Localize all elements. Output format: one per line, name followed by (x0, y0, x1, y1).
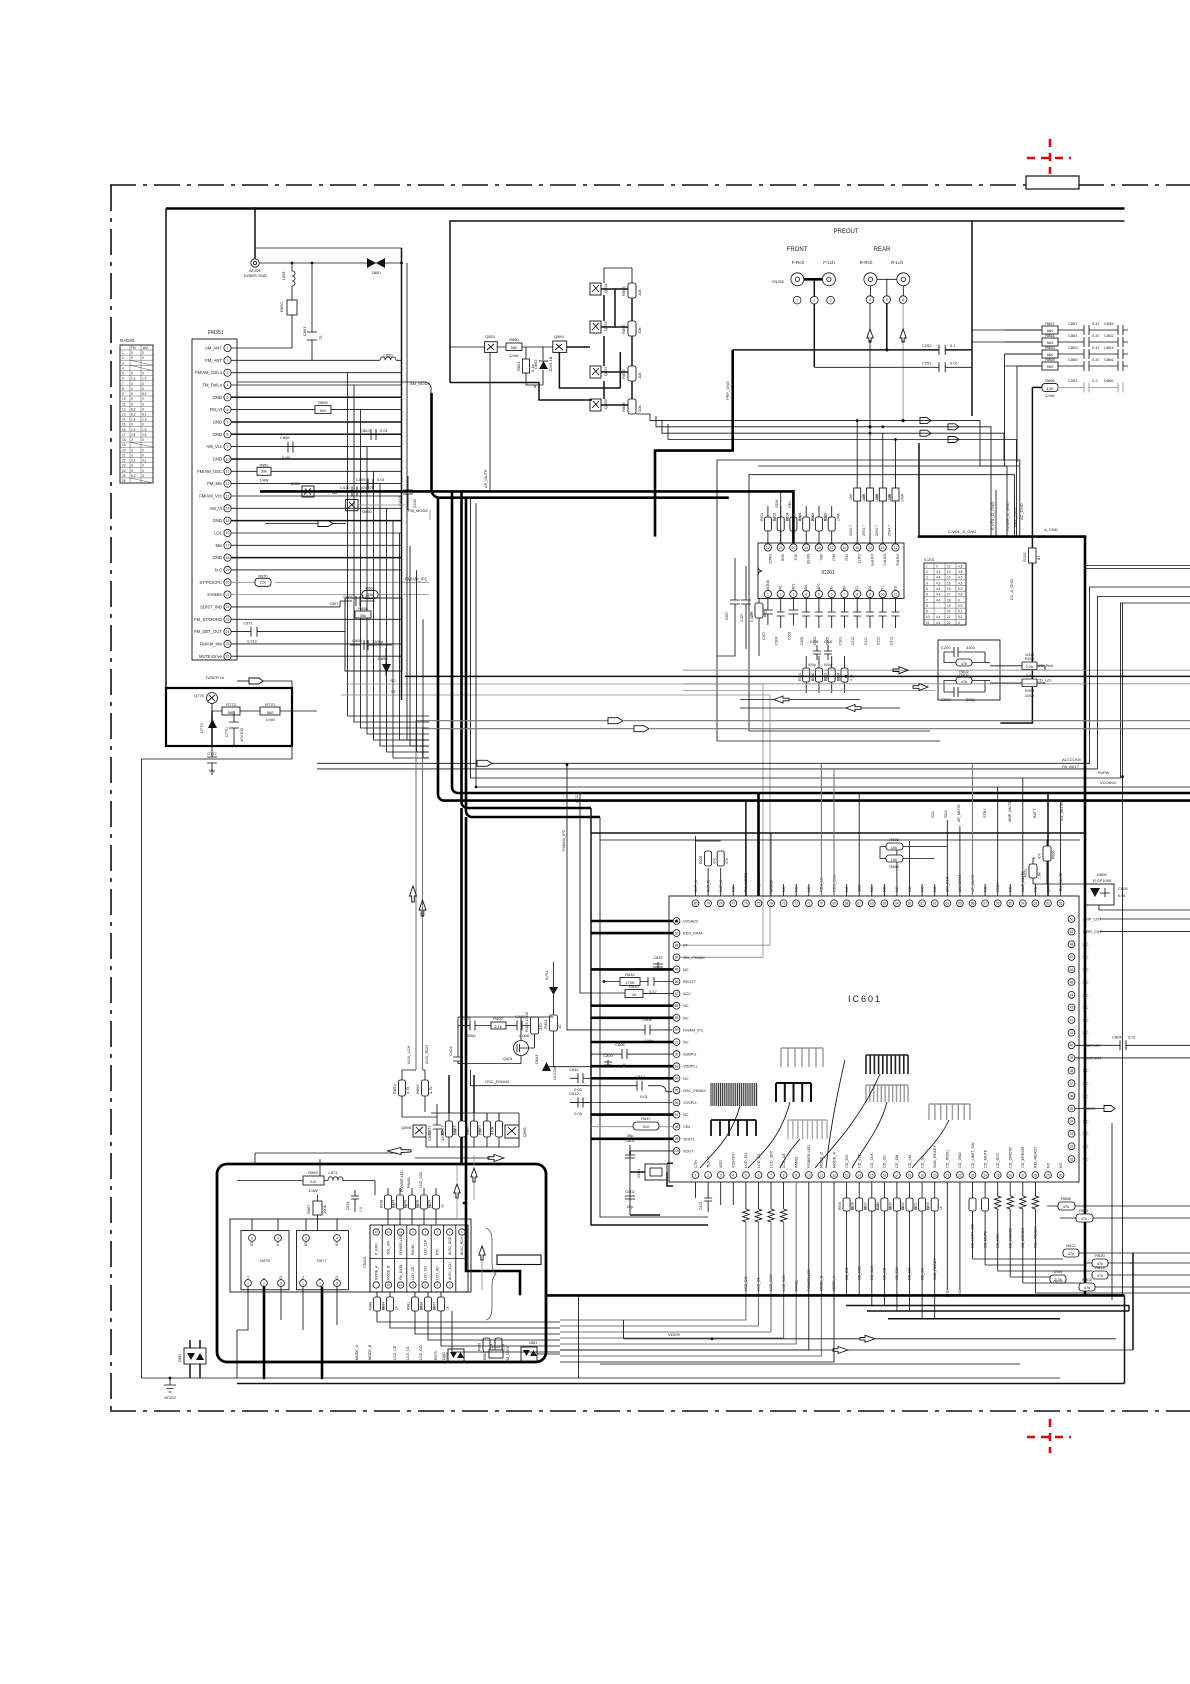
svg-text:1300p: 1300p (372, 639, 384, 644)
svg-text:23: 23 (226, 618, 230, 622)
wire thick bottom bus3 (867, 1310, 1129, 1312)
svg-text:L871: L871 (329, 1170, 339, 1175)
svg-text:7: 7 (926, 598, 928, 602)
svg-text:K1: K1 (301, 1276, 305, 1280)
svg-text:89: 89 (675, 1016, 679, 1020)
svg-text:14: 14 (226, 507, 230, 511)
pin IC601-86 REOST (673, 978, 697, 985)
resistor R818 (1050, 1269, 1066, 1284)
svg-text:1.3: 1.3 (142, 377, 147, 381)
resistor R836 CD (851, 1182, 868, 1295)
pin IC601-31 NC (1068, 1156, 1089, 1163)
svg-text:10V220: 10V220 (360, 485, 375, 490)
svg-text:NC: NC (683, 1041, 689, 1045)
svg-text:Q852: Q852 (362, 509, 373, 514)
svg-text:1/4W: 1/4W (491, 1344, 501, 1349)
svg-text:R870: R870 (258, 574, 267, 578)
svg-text:R837: R837 (863, 1202, 867, 1210)
pin IC601-25 CD_RST (994, 1152, 1001, 1178)
svg-text:2k: 2k (395, 1306, 399, 1310)
svg-text:4: 4 (869, 298, 871, 302)
wire thick bottom bus1 (546, 1294, 1125, 1297)
svg-text:D882: D882 (442, 1352, 446, 1360)
pin 4 FM_Do/Lo (202, 381, 231, 388)
svg-text:R847: R847 (641, 1116, 651, 1121)
svg-text:Q854: Q854 (554, 334, 565, 339)
pin 18 GND (213, 554, 231, 561)
svg-text:0.01: 0.01 (950, 361, 959, 366)
svg-text:1k: 1k (446, 1306, 450, 1310)
svg-text:SCL: SCL (793, 554, 797, 561)
resistor R902 bottom (944, 672, 990, 692)
svg-text:L850: L850 (384, 352, 394, 357)
resistor R689 (880, 847, 935, 870)
svg-text:2: 2 (263, 1281, 265, 1285)
wire pin3 (231, 372, 401, 374)
pin IC601-36 NC (1068, 1092, 1089, 1099)
svg-text:C859: C859 (1104, 321, 1114, 326)
svg-text:P5V: P5V (436, 1248, 440, 1255)
pin IC601-44 NC (1068, 991, 1089, 998)
svg-text:47k: 47k (725, 858, 729, 864)
svg-text:5.1k: 5.1k (494, 1024, 502, 1029)
svg-text:RDS_DATA: RDS_DATA (683, 932, 703, 936)
resistor zig LCD 2 (560, 1182, 762, 1326)
wire bottom rail 2 (237, 1383, 1125, 1385)
svg-text:390: 390 (261, 470, 267, 474)
svg-text:D860: D860 (1104, 378, 1114, 383)
resistor R852 on pin11 (231, 470, 401, 472)
svg-text:55: 55 (1008, 902, 1012, 906)
wire pin4 drop (867, 303, 873, 426)
svg-text:LCD_D1: LCD_D1 (757, 1277, 761, 1291)
wire branch 4 (367, 447, 429, 734)
resistor R204 (785, 506, 802, 544)
svg-text:ST-PG/CPC: ST-PG/CPC (199, 580, 222, 585)
wire rear drops (870, 286, 903, 296)
pin 20 ST-PG/CPC (199, 579, 231, 586)
svg-text:9: 9 (122, 392, 124, 396)
pin IC601-65 NC (881, 884, 888, 907)
svg-text:17: 17 (122, 433, 126, 437)
wire bus v461b display drop (460, 808, 463, 1164)
svg-text:X601: X601 (636, 1168, 641, 1178)
pin IC201-22 GND2 (764, 544, 772, 564)
wire display drops (264, 1287, 322, 1379)
capacitor C306 (800, 598, 810, 645)
svg-text:16: 16 (883, 1173, 887, 1177)
svg-text:68: 68 (845, 902, 849, 906)
resistor R770 (260, 702, 317, 722)
resistor R809 CD (926, 1182, 943, 1319)
svg-text:3: 3 (122, 361, 124, 365)
svg-text:K3: K3 (335, 1276, 339, 1280)
svg-text:FM/AM_Vcc: FM/AM_Vcc (199, 494, 222, 499)
resistor R841 (1060, 1208, 1190, 1222)
diode D880 (178, 1340, 206, 1378)
svg-text:NC: NC (1083, 1158, 1089, 1162)
net OSC_FM/AM (471, 1070, 673, 1092)
svg-text:C851: C851 (302, 326, 307, 336)
wire MODE_B (560, 1182, 824, 1356)
pin IC601-14 CD_LTD (856, 1153, 863, 1178)
resistor R861 (1005, 333, 1084, 346)
capacitor C311 (864, 598, 874, 645)
wire osc top (458, 1017, 553, 1026)
wire pin14 (231, 507, 401, 509)
svg-text:AMP_CNT: AMP_CNT (1083, 918, 1102, 922)
wire pin23 (231, 618, 401, 620)
resistor R804b (995, 1182, 1001, 1271)
svg-text:14: 14 (868, 546, 872, 550)
connector arrow up b (471, 1168, 477, 1182)
wire branch 1 (348, 373, 430, 716)
svg-text:330: 330 (538, 1023, 543, 1030)
svg-text:1/4W: 1/4W (1025, 693, 1035, 698)
svg-text:95: 95 (675, 1089, 679, 1093)
svg-text:15: 15 (226, 519, 230, 523)
pin 26 MUTE-Drive (199, 653, 231, 660)
resistor R858 (355, 606, 371, 618)
svg-text:10: 10 (122, 397, 126, 401)
wire pin1 (231, 347, 292, 349)
svg-text:R829: R829 (428, 1200, 432, 1208)
pin IC201-12 OUTR2 (892, 544, 900, 566)
svg-text:12: 12 (122, 407, 126, 411)
wire x578 drop (578, 1295, 580, 1378)
waveform blob 1 (781, 1048, 823, 1067)
svg-text:9: 9 (795, 1173, 797, 1177)
svg-text:0: 0 (131, 387, 133, 391)
svg-text:18: 18 (947, 598, 951, 602)
svg-text:R205: R205 (1022, 552, 1027, 562)
capacitor C886 (741, 566, 754, 625)
svg-text:MODE_B: MODE_B (387, 1265, 391, 1280)
wire RxPW (471, 498, 1190, 778)
connector arrow CD_Rch (893, 667, 908, 674)
resistor R820 (1085, 1253, 1190, 1267)
svg-text:CD_CE: CD_CE (883, 1155, 887, 1168)
block enclosure IC601 outer top (591, 832, 1085, 834)
svg-text:21: 21 (779, 546, 783, 550)
capacitor C806 (591, 1042, 673, 1067)
svg-text:D881: D881 (529, 1341, 537, 1345)
pin IC601-87 ACC (673, 990, 691, 997)
svg-text:18k: 18k (750, 611, 754, 617)
svg-text:90: 90 (675, 1028, 679, 1032)
table IC201 (924, 557, 966, 625)
svg-text:51: 51 (1059, 902, 1063, 906)
resistor R877 (433, 1292, 450, 1322)
table RADIO (120, 338, 153, 483)
svg-text:5.1: 5.1 (958, 610, 963, 614)
svg-text:FM: FM (131, 346, 136, 350)
svg-text:32: 32 (1070, 1145, 1074, 1149)
svg-text:C310: C310 (851, 637, 855, 645)
capacitor C253 (849, 525, 853, 536)
svg-text:25V4.7: 25V4.7 (862, 525, 866, 536)
svg-text:10: 10 (807, 1173, 811, 1177)
svg-text:15: 15 (122, 423, 126, 427)
pin IC601-71 NC (805, 884, 812, 907)
resistor R854 (392, 1070, 437, 1117)
pin IC601-62 NC (919, 884, 926, 907)
net ACC (574, 793, 625, 993)
svg-text:R878: R878 (380, 1200, 384, 1208)
svg-text:1.5: 1.5 (131, 428, 136, 432)
connector flag aux1 (608, 718, 623, 724)
svg-text:R828: R828 (416, 1200, 420, 1208)
svg-text:ACC: ACC (683, 992, 691, 996)
capacitor C865 (1068, 357, 1118, 371)
svg-text:LCD_CLK: LCD_CLK (423, 1239, 427, 1255)
svg-text:0: 0 (142, 372, 144, 376)
svg-text:Q851: Q851 (603, 282, 608, 293)
wire front jack tie (804, 278, 822, 281)
wire bank internals (567, 268, 632, 405)
capacitor C851 (302, 263, 323, 360)
svg-text:Q853: Q853 (485, 334, 496, 339)
svg-text:22: 22 (766, 546, 770, 550)
svg-text:C307: C307 (762, 632, 766, 640)
svg-text:R403 1/4W: R403 1/4W (524, 1012, 529, 1032)
svg-text:R876: R876 (404, 1200, 408, 1208)
ic IC201 body (758, 543, 904, 598)
wire tuner gnd drop (254, 209, 256, 259)
svg-text:43: 43 (1070, 1006, 1074, 1010)
svg-text:POWER-LED: POWER-LED (400, 1170, 404, 1192)
svg-text:67: 67 (857, 902, 861, 906)
svg-text:3: 3 (131, 453, 133, 457)
svg-text:8: 8 (783, 1173, 785, 1177)
pin IC601-57 NC (982, 884, 989, 907)
page border frame (110, 185, 1190, 1411)
wire pin16 (231, 532, 401, 534)
pin IC601-35 TBASS (1068, 1105, 1115, 1112)
pin IC601-76 FM_MODE (743, 801, 750, 907)
svg-text:2: 2 (813, 299, 815, 303)
svg-text:41: 41 (1070, 1031, 1074, 1035)
wire PANEL (560, 1182, 798, 1344)
svg-text:28: 28 (1034, 1173, 1038, 1177)
resistor R863 aux (452, 1113, 478, 1147)
svg-text:ACC: ACC (574, 794, 579, 803)
svg-text:R821: R821 (914, 1202, 918, 1210)
svg-text:CD_LTD: CD_LTD (857, 1266, 861, 1280)
resistor zig LCD 4 (560, 1182, 787, 1338)
svg-text:0: 0 (142, 438, 144, 442)
svg-text:T1: T1 (881, 586, 885, 590)
svg-text:13: 13 (122, 413, 126, 417)
resistor R864 (415, 1070, 433, 1112)
svg-text:F-Rch: F-Rch (792, 260, 805, 265)
svg-text:C770: C770 (224, 727, 229, 737)
svg-text:2: 2 (319, 1281, 321, 1285)
capacitor C863 (1068, 345, 1118, 359)
svg-text:560: 560 (1047, 364, 1054, 369)
pin IC201-21 SDA (777, 544, 785, 562)
svg-text:K1: K1 (246, 1276, 250, 1280)
capacitor C802 (625, 1189, 636, 1209)
svg-text:FM351: FM351 (208, 330, 224, 336)
pin IC601-22 CD_GND (957, 1152, 964, 1179)
svg-text:73: 73 (782, 902, 786, 906)
net AF_MUTE mid (483, 352, 490, 491)
resistor R861 aux (427, 1113, 453, 1147)
wire pin10 (231, 458, 401, 460)
svg-text:CD_EM: CD_EM (895, 1155, 899, 1168)
connector flag preout 3 (920, 430, 931, 436)
svg-text:FM_Vt: FM_Vt (210, 407, 223, 412)
svg-text:BATT: BATT (1033, 808, 1037, 818)
svg-text:R874: R874 (392, 1200, 396, 1208)
svg-text:FM_ANT: FM_ANT (205, 358, 222, 363)
resistor R209 (824, 506, 841, 544)
svg-text:12: 12 (832, 1173, 836, 1177)
svg-text:Q401: Q401 (503, 1056, 514, 1061)
svg-text:VD2: VD2 (845, 554, 849, 561)
svg-text:K4: K4 (335, 1242, 339, 1246)
svg-text:FM/AM_OSC: FM/AM_OSC (197, 469, 222, 474)
svg-text:LO1: LO1 (214, 531, 223, 536)
svg-text:11: 11 (894, 593, 898, 597)
svg-text:11: 11 (122, 402, 126, 406)
svg-text:C897: C897 (329, 602, 338, 606)
svg-text:97: 97 (675, 1113, 679, 1117)
svg-text:CD_LM: CD_LM (908, 1155, 912, 1168)
resistor R205 (1000, 387, 1041, 723)
wire row feeds (972, 330, 1042, 466)
wire pin6 drop (900, 303, 906, 420)
svg-text:0.8: 0.8 (958, 593, 963, 597)
svg-text:10k: 10k (637, 406, 642, 412)
svg-text:AM: AM (143, 346, 148, 350)
transistor Q855 (590, 320, 608, 333)
svg-text:A_GND: A_GND (1044, 527, 1058, 532)
svg-text:R863: R863 (1045, 345, 1055, 350)
diode D841 (534, 1054, 672, 1080)
svg-text:C252: C252 (922, 343, 932, 348)
svg-text:POWER-LED: POWER-LED (807, 1269, 811, 1291)
svg-text:7: 7 (844, 593, 846, 597)
svg-text:C865: C865 (352, 638, 362, 643)
resistor R847 (591, 1116, 673, 1130)
svg-text:0: 0 (936, 564, 938, 568)
capacitor C810 (635, 1074, 648, 1099)
svg-text:3: 3 (131, 464, 133, 468)
svg-text:MUTE-Drive: MUTE-Drive (199, 654, 223, 659)
resistor R884 (382, 1292, 399, 1322)
svg-text:5: 5 (745, 1173, 747, 1177)
svg-text:470k: 470k (490, 1126, 495, 1135)
svg-text:FM/AM_Do/Lo: FM/AM_Do/Lo (195, 370, 223, 375)
svg-text:GND: GND (213, 555, 222, 560)
svg-text:0: 0 (142, 382, 144, 386)
svg-text:75: 75 (318, 335, 323, 340)
svg-text:CD_DO: CD_DO (845, 1155, 849, 1168)
wire aux gray right of CN601 (457, 1155, 482, 1290)
svg-text:4.5: 4.5 (958, 581, 963, 585)
svg-text:REL-READY: REL-READY (1034, 1146, 1038, 1168)
svg-text:P_GND: P_GND (374, 1243, 378, 1255)
svg-text:R868: R868 (1061, 1196, 1071, 1201)
svg-text:C303: C303 (787, 632, 791, 640)
svg-text:VDDPLL: VDDPLL (683, 1065, 698, 1069)
capacitor C202 bottom (941, 687, 985, 702)
svg-text:NC: NC (1059, 1162, 1063, 1168)
svg-text:VSSPLL: VSSPLL (683, 1101, 697, 1105)
resistor 180 feed (888, 488, 905, 544)
svg-text:7: 7 (122, 382, 124, 386)
resistor R853 (621, 283, 642, 298)
svg-text:Q898: Q898 (401, 1125, 412, 1130)
pin IC201-2 FIL (777, 585, 784, 598)
svg-text:11: 11 (926, 621, 930, 625)
pin IC601-91 NC (591, 1039, 689, 1046)
svg-text:1/4W: 1/4W (901, 493, 905, 502)
resistor R202 (773, 506, 790, 544)
svg-text:5V91: 5V91 (544, 970, 549, 980)
wire pin12 (231, 483, 401, 485)
svg-text:79: 79 (706, 902, 710, 906)
svg-text:R852: R852 (259, 463, 268, 467)
svg-text:4.4: 4.4 (936, 587, 941, 591)
svg-text:75: 75 (757, 902, 761, 906)
pin 13 FM/AM_Vcc (199, 492, 231, 499)
capacitor C861 (1068, 333, 1118, 347)
svg-text:TUNER HI: TUNER HI (205, 675, 224, 680)
svg-text:22: 22 (226, 605, 230, 609)
resistor R874 (392, 1188, 409, 1225)
svg-text:VSSADC: VSSADC (683, 920, 699, 924)
svg-text:NC: NC (1083, 968, 1089, 972)
svg-text:2.2: 2.2 (1092, 378, 1098, 383)
pin IC601-2 TEST2 (705, 1156, 712, 1178)
pin IC601-19 CD_S/L (919, 1155, 926, 1179)
svg-text:S-Meter: S-Meter (207, 592, 222, 597)
svg-text:FM_MODE: FM_MODE (408, 508, 428, 513)
svg-text:AGND: AGND (766, 579, 770, 590)
svg-text:18: 18 (226, 556, 230, 560)
svg-text:IN: IN (830, 586, 834, 590)
svg-text:17: 17 (947, 593, 951, 597)
svg-text:VCONV2: VCONV2 (1100, 780, 1117, 785)
svg-text:4: 4 (277, 1236, 279, 1240)
svg-text:10: 10 (557, 1024, 562, 1029)
svg-text:20: 20 (122, 448, 126, 452)
wire bus v438 (438, 498, 1190, 801)
resistor R832 CD (901, 1182, 918, 1311)
svg-text:C864: C864 (1104, 345, 1114, 350)
svg-text:15: 15 (855, 546, 859, 550)
svg-text:85: 85 (675, 968, 679, 972)
svg-text:R401: R401 (543, 1019, 548, 1029)
svg-text:0: 0 (142, 397, 144, 401)
svg-text:PWR_CNT: PWR_CNT (1083, 930, 1102, 934)
capacitor C200 top (941, 645, 985, 657)
svg-text:NC: NC (1083, 1132, 1089, 1136)
svg-text:FM/AM_IFC: FM/AM_IFC (561, 829, 566, 851)
svg-text:0.027: 0.027 (740, 613, 744, 622)
pin IC601-18 CD_LM (906, 1155, 913, 1178)
resistor R401 (543, 1015, 562, 1067)
pin IC601-24 CD_MUTE (982, 1149, 989, 1178)
svg-text:2: 2 (122, 356, 124, 360)
wire cn601 bottom fan (377, 1311, 560, 1352)
svg-text:R877: R877 (433, 1302, 437, 1310)
wire right double pair (1085, 566, 1190, 569)
wire preout feeds down (857, 419, 895, 488)
